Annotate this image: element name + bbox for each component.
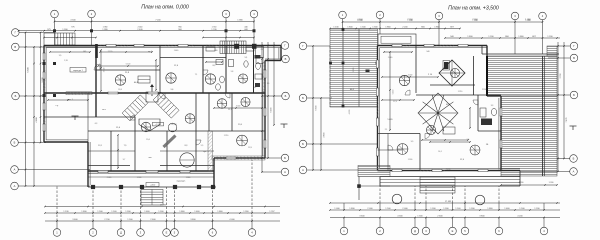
svg-text:1 210: 1 210 (224, 135, 229, 137)
ventilation shaft symbol (470, 145, 480, 155)
right plan bottom dimension chain 3 (330, 202, 560, 204)
svg-text:1 740: 1 740 (212, 27, 217, 29)
svg-text:7,1: 7,1 (195, 74, 198, 76)
bath fixtures (216, 60, 223, 65)
svg-text:3,1: 3,1 (254, 87, 257, 89)
svg-text:План на отм. 0,000: План на отм. 0,000 (141, 4, 189, 10)
right mini dim chain (501, 184, 557, 186)
right plan inner room lines (387, 134, 389, 171)
axis bubble 4 (540, 227, 548, 235)
svg-text:7 300: 7 300 (472, 19, 478, 21)
interior dimension chains left plan (100, 50, 102, 91)
door arcs left plan (94, 64, 100, 70)
axis bubble 5 (171, 229, 179, 237)
axis bubble Б (570, 91, 578, 99)
svg-text:2 000: 2 000 (353, 68, 355, 73)
left plan interior wall y=131 right rooms (196, 130, 265, 132)
svg-text:1 767: 1 767 (269, 211, 275, 213)
svg-text:1 300: 1 300 (158, 211, 164, 213)
svg-text:1 860: 1 860 (434, 27, 440, 29)
svg-text:1 300: 1 300 (125, 211, 131, 213)
left plan bottom dimension chain 3 (45, 206, 280, 208)
axis bubble 5 (461, 227, 469, 235)
double wall inner lines left plan (46, 47, 281, 49)
svg-text:6,3: 6,3 (95, 123, 98, 125)
axis bubble А (11, 166, 19, 174)
axis bubble 3 (137, 229, 145, 237)
left axis lines (19, 32, 54, 34)
svg-text:9,7: 9,7 (123, 159, 126, 161)
left plan porch edge with columns (88, 186, 216, 188)
svg-text:1 160: 1 160 (111, 211, 117, 213)
svg-text:2 000: 2 000 (402, 208, 408, 210)
door arcs right plan (405, 90, 410, 95)
svg-text:1 800: 1 800 (349, 208, 355, 210)
svg-text:940: 940 (427, 51, 430, 53)
svg-text:Б: Б (573, 93, 575, 97)
svg-text:1 200: 1 200 (547, 36, 553, 38)
ventilation shaft symbol (166, 73, 176, 83)
left plan top dimension chain 2 (19, 30, 255, 32)
svg-text:2 440: 2 440 (138, 27, 143, 29)
ventilation shaft symbol (426, 125, 435, 134)
svg-text:17,9: 17,9 (393, 101, 397, 103)
right plan right wall mid (500, 96, 502, 171)
right plan left terrace hatched (330, 29, 378, 107)
left plan interior wall x=209 lower (208, 93, 210, 131)
svg-text:+1,540: +1,540 (171, 124, 177, 126)
svg-text:1 130: 1 130 (63, 211, 69, 213)
left plan outer wall lower-left (87, 142, 89, 187)
axis bubble 6 (495, 227, 503, 235)
left plan bottom dimension chain 2 (45, 212, 280, 214)
axis bubble 3 (422, 227, 430, 235)
left plan main stair flight A (122, 95, 148, 121)
axis bubble А (570, 168, 578, 176)
left plan top dimension chain 3 (44, 37, 96, 39)
right plan top dimension chain 1 (343, 21, 543, 23)
right roof top strip (547, 46, 557, 56)
bottom-left corner terrace hatch (358, 166, 390, 177)
left plan wall x=214 lower (213, 158, 215, 187)
interior mini dim rows right plan (384, 51, 412, 53)
right plan bottom dimension chain 1 (330, 217, 560, 219)
svg-text:пр-1: пр-1 (148, 51, 152, 53)
hall bay niche (139, 119, 160, 131)
svg-text:1 860: 1 860 (179, 211, 185, 213)
svg-text:1 500: 1 500 (97, 211, 103, 213)
svg-text:1 460: 1 460 (504, 208, 510, 210)
stair treads (220, 41, 246, 54)
bottom drop lines right plan (343, 218, 345, 228)
right plan tower diamond room (439, 60, 465, 86)
right plan bottom axis dashed verticals (343, 203, 345, 210)
right plan top wall y=54 right part (482, 53, 559, 55)
svg-text:3 600: 3 600 (72, 219, 78, 221)
svg-text:1 500: 1 500 (360, 27, 366, 29)
section cut flag (151, 86, 153, 96)
svg-text:План на отм. +3,500: План на отм. +3,500 (448, 5, 499, 11)
svg-text:3 700: 3 700 (560, 73, 562, 79)
left vertical dimension chains (25, 33, 27, 187)
left plan outer wall right lower (264, 61, 266, 159)
axis bubble Б (11, 139, 19, 147)
svg-text:1,5: 1,5 (59, 55, 62, 57)
left plan outer wall right upper (280, 46, 282, 61)
svg-text:6 600: 6 600 (28, 67, 30, 73)
svg-text:Д: Д (414, 229, 416, 233)
axis bubble Е (449, 227, 457, 235)
svg-text:Б: Б (284, 156, 286, 160)
left axis lines right plan (306, 45, 330, 47)
svg-text:1 500: 1 500 (385, 208, 391, 210)
svg-text:4 500: 4 500 (70, 20, 76, 22)
right plan top dimension chain 3 (445, 37, 560, 39)
svg-text:А: А (302, 168, 304, 172)
left plan outer wall top (44, 45, 281, 47)
svg-text:2 600: 2 600 (437, 216, 443, 218)
svg-text:Д: Д (120, 231, 122, 235)
porch column post (358, 177, 360, 201)
svg-text:с.у.: с.у. (56, 105, 59, 107)
svg-text:А: А (14, 168, 16, 172)
svg-text:2 600: 2 600 (150, 219, 156, 221)
svg-text:1 440: 1 440 (388, 57, 393, 59)
axis bubble Д (117, 229, 125, 237)
left plan interior wall x=253 (253, 46, 255, 94)
bottom axis drop lines (56, 221, 58, 229)
ventilation shaft symbol (399, 75, 409, 85)
svg-text:960: 960 (215, 50, 218, 52)
svg-text:1 380: 1 380 (103, 27, 108, 29)
svg-text:1 860: 1 860 (518, 36, 524, 38)
svg-text:5 020: 5 020 (387, 119, 393, 121)
veranda label box (70, 68, 86, 73)
svg-text:1 860: 1 860 (217, 211, 223, 213)
ventilation shaft symbol (185, 114, 195, 124)
svg-text:2,1: 2,1 (385, 129, 388, 131)
svg-text:975: 975 (71, 27, 74, 29)
svg-text:1 440: 1 440 (174, 50, 179, 52)
svg-text:7 200: 7 200 (155, 20, 161, 22)
svg-text:1 460: 1 460 (144, 211, 150, 213)
left plan wall y=165 segments (88, 165, 130, 167)
left plan axis dashed verticals (120, 187, 122, 221)
svg-text:1 800: 1 800 (347, 27, 353, 29)
axis bubble 4 (248, 229, 256, 237)
ventilation shaft symbol (241, 97, 250, 106)
svg-text:хол: хол (148, 157, 151, 159)
svg-text:В: В (14, 45, 16, 49)
svg-text:1 460: 1 460 (194, 211, 200, 213)
stair label box (153, 122, 164, 126)
svg-text:1 200: 1 200 (549, 182, 554, 184)
svg-text:2 700: 2 700 (104, 219, 110, 221)
ventilation shaft symbol (115, 75, 125, 85)
svg-text:7,9: 7,9 (124, 145, 127, 147)
svg-text:1 200: 1 200 (498, 169, 503, 171)
svg-text:1 300: 1 300 (430, 208, 436, 210)
ventilation shaft symbol (237, 135, 248, 146)
axis bubble Б (570, 155, 578, 163)
axis bubble А (11, 182, 19, 190)
terrace joist lines (342, 29, 344, 107)
svg-text:5,5: 5,5 (201, 145, 204, 147)
svg-text:6 200: 6 200 (271, 107, 273, 113)
ventilation shaft symbol (141, 122, 151, 132)
axis bubble 3 (222, 10, 230, 18)
svg-text:16,1: 16,1 (438, 151, 442, 153)
svg-text:Б: Б (573, 157, 575, 161)
axis bubble 2 (88, 10, 96, 18)
svg-text:1 500: 1 500 (519, 208, 525, 210)
svg-text:Е: Е (452, 229, 454, 233)
svg-text:2 000: 2 000 (367, 208, 373, 210)
left plan interior wall x=203 (202, 46, 204, 94)
svg-text:3 800: 3 800 (479, 216, 485, 218)
svg-text:4 000: 4 000 (229, 219, 235, 221)
left plan interior wall y=117 left rooms (44, 116, 96, 118)
masonry hatch bands on outer walls (100, 44, 128, 46)
right roof thick border (486, 56, 488, 96)
svg-text:4 200: 4 200 (517, 216, 523, 218)
stair treads (55, 33, 75, 45)
left plan top dimension chain 1 (55, 21, 255, 23)
masonry hatch bands right plan (390, 44, 410, 46)
axis bubble А (281, 168, 289, 176)
right plan wall x=420 lower (419, 134, 421, 171)
elevation mark (281, 123, 288, 125)
axis bubble Г (12, 29, 20, 37)
left plan interior wall y=93 main (44, 92, 265, 94)
svg-text:17 435: 17 435 (445, 201, 452, 203)
axis drop lines right plan (342, 18, 344, 29)
svg-text:5,8: 5,8 (231, 71, 234, 73)
interior mini dim rows (50, 51, 90, 53)
svg-text:7 200: 7 200 (407, 19, 413, 21)
right plan big stairwell (418, 93, 458, 134)
right plan interior wall x=416 (415, 46, 417, 94)
chimney block (444, 62, 449, 69)
table symbol (443, 127, 455, 134)
svg-text:Б: Б (302, 96, 304, 100)
axis bubble 1 (339, 11, 347, 19)
elevation mark (72, 115, 79, 117)
axis bubble Б (12, 92, 20, 100)
svg-text:2,7: 2,7 (261, 49, 264, 51)
axis bubble В (12, 43, 20, 51)
svg-text:+1,540: +1,540 (155, 124, 161, 126)
left plan interior wall y=70 (96, 69, 160, 71)
terrace deck lines (380, 179, 520, 181)
svg-text:4 300: 4 300 (397, 216, 403, 218)
svg-text:3 800: 3 800 (190, 219, 196, 221)
axis bubble Г (281, 42, 289, 50)
svg-text:1 000: 1 000 (334, 208, 340, 210)
svg-text:В: В (285, 57, 287, 61)
axis bubble Г (570, 42, 578, 50)
svg-text:1 130: 1 130 (333, 27, 339, 29)
axis bubble 4 (250, 10, 258, 18)
right axis lines right plan (557, 45, 571, 47)
axis bubble Г (299, 42, 307, 50)
left plan interior wall x=226 (225, 46, 227, 94)
axis bubble Б (281, 154, 289, 162)
svg-text:1 160: 1 160 (455, 208, 461, 210)
svg-text:Б: Б (285, 94, 287, 98)
axis bubble 1 (53, 229, 61, 237)
axis bubble 1 (340, 227, 348, 235)
left plan interior wall x=196 lower (195, 93, 197, 131)
axis bubble Д (411, 227, 419, 235)
stair treads (420, 177, 455, 193)
right plan bath cluster walls (477, 95, 479, 131)
svg-text:1 800: 1 800 (81, 211, 87, 213)
svg-text:4 000: 4 000 (408, 75, 413, 77)
svg-text:Б: Б (15, 94, 17, 98)
right vertical dims right plan (557, 42, 559, 172)
left plan wall jog right (265, 60, 281, 62)
svg-text:А: А (14, 184, 16, 188)
svg-text:веранда 1: веранда 1 (73, 70, 83, 72)
svg-text:1 740: 1 740 (211, 29, 217, 31)
svg-text:23,4: 23,4 (238, 124, 242, 126)
right plan interior wall y=85 (430, 84, 475, 86)
left plan wall x=88 upper segment (87, 93, 89, 142)
top wall columns (235, 44, 240, 49)
ventilation shaft symbol (238, 74, 247, 83)
svg-text:2 400: 2 400 (446, 169, 451, 171)
svg-text:5 450: 5 450 (393, 90, 395, 95)
axis bubble Б (282, 92, 290, 100)
svg-text:А: А (284, 170, 286, 174)
svg-text:1 380: 1 380 (102, 29, 108, 31)
svg-text:4 800: 4 800 (36, 117, 38, 123)
right plan interior wall x=473 (473, 56, 475, 95)
left plan main stair flight B (153, 92, 179, 118)
right plan outer wall bottom (378, 170, 521, 172)
svg-text:4 300: 4 300 (349, 110, 351, 115)
svg-text:1 900: 1 900 (127, 219, 133, 221)
svg-text:1 860: 1 860 (186, 177, 191, 179)
svg-text:9,9: 9,9 (411, 141, 414, 143)
steps label box (146, 183, 159, 187)
axis bubble 1 (51, 10, 59, 18)
right plan outer wall top (378, 45, 488, 47)
double wall inner lines right plan (379, 48, 381, 169)
roof ridge double line (542, 56, 544, 176)
svg-text:440: 440 (244, 27, 247, 29)
right plan right wall upper (486, 46, 488, 57)
axis bubble Б (299, 94, 307, 102)
left vertical dims right plan (312, 46, 314, 170)
ventilation shaft symbol (205, 74, 215, 84)
svg-text:8,3: 8,3 (185, 145, 188, 147)
right plan wall x=482 upper (481, 46, 483, 55)
right axis lines (265, 45, 282, 47)
right plan balcony top (378, 34, 416, 46)
window openings right plan (376, 60, 379, 68)
svg-text:3 600: 3 600 (359, 216, 365, 218)
svg-text:1 300: 1 300 (443, 208, 449, 210)
elevation mark (570, 125, 577, 127)
axis bubble 2 (89, 229, 97, 237)
axis bubble 6 (209, 229, 217, 237)
svg-text:7 435: 7 435 (566, 117, 568, 123)
svg-text:-1,310: -1,310 (150, 185, 155, 187)
svg-text:1,9: 1,9 (267, 83, 270, 85)
axis bubble 3 (435, 12, 443, 20)
right plan wall y=133 (378, 133, 421, 135)
svg-text:9,6: 9,6 (171, 89, 174, 91)
svg-text:1 860: 1 860 (385, 27, 391, 29)
svg-text:А: А (573, 170, 575, 174)
axis drop lines (54, 18, 56, 45)
axis bubble А (299, 166, 307, 174)
bottom porch columns (91, 185, 95, 189)
svg-text:В: В (573, 56, 575, 60)
svg-text:гост.: гост. (102, 109, 106, 111)
stair treads (141, 190, 163, 206)
svg-text:1 380: 1 380 (237, 20, 243, 22)
svg-text:2 440: 2 440 (137, 29, 143, 31)
svg-text:4 500: 4 500 (357, 19, 363, 21)
svg-text:1 300: 1 300 (137, 177, 142, 179)
terrace corner dots (342, 62, 345, 65)
svg-text:1 380: 1 380 (525, 19, 531, 21)
left plan outer wall bottom of right wing (214, 157, 265, 159)
svg-text:В-1: В-1 (84, 51, 87, 53)
svg-text:1 300: 1 300 (417, 216, 423, 218)
left plan lower hall walls (96, 116, 135, 118)
svg-text:Е: Е (166, 231, 168, 235)
right plan right roof hatch lower (501, 96, 557, 176)
svg-text:1 210: 1 210 (458, 91, 463, 93)
svg-text:2 020: 2 020 (107, 177, 112, 179)
left plan wall y=131 left part (88, 130, 196, 132)
svg-text:1 300: 1 300 (372, 27, 378, 29)
axis bubble В (570, 54, 578, 62)
svg-text:1 800: 1 800 (467, 36, 473, 38)
axis bubble Б (299, 140, 307, 148)
svg-text:4 000: 4 000 (236, 106, 241, 108)
axis bubble 4 (539, 12, 547, 20)
svg-text:13,1: 13,1 (98, 145, 102, 147)
right vertical dimension chains of left plan (261, 42, 263, 172)
left plan bottom dimension chain 1 (45, 220, 280, 222)
svg-text:1 300: 1 300 (62, 29, 68, 31)
svg-text:кух.: кух. (203, 151, 207, 153)
svg-text:3 000: 3 000 (104, 68, 106, 73)
left plan main bottom wall (88, 170, 214, 172)
right plan right roof hatch upper (487, 56, 557, 96)
svg-text:1 200: 1 200 (488, 36, 494, 38)
svg-text:13,9: 13,9 (248, 147, 252, 149)
right plan outer wall left (377, 46, 379, 171)
interior dimension chains right plan (389, 52, 391, 130)
axis bubble 3 (511, 12, 519, 20)
dining table symbol (138, 76, 150, 83)
svg-text:1 200: 1 200 (534, 208, 540, 210)
window openings left plan (43, 53, 46, 60)
svg-text:20,3: 20,3 (118, 89, 122, 91)
svg-text:2 200: 2 200 (402, 27, 408, 29)
round column hall (180, 153, 194, 167)
svg-text:5 100: 5 100 (126, 64, 131, 66)
left plan wall y=151 segments (88, 150, 135, 152)
axis bubble 2 (376, 227, 384, 235)
left plan interior wall y=57 right block (160, 57, 226, 59)
